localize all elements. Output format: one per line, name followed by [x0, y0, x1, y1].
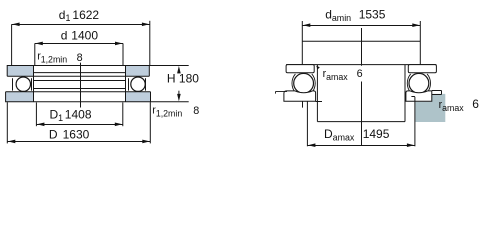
svg-text:ramax: ramax	[323, 68, 349, 82]
D1 extension right	[122, 102, 124, 126]
svg-text:8: 8	[77, 52, 83, 64]
svg-text:d: d	[61, 28, 68, 42]
shaft left edge + damin extension	[301, 21, 303, 65]
housing seat wall right	[404, 65, 406, 122]
top washer outline	[7, 66, 149, 77]
shaft right edge + damin extension	[419, 21, 421, 65]
svg-text:6: 6	[472, 97, 479, 111]
bottom washer outline	[6, 92, 151, 102]
cage pocket line right inner	[128, 78, 130, 90]
housing outer wall left + Damax extension	[306, 101, 308, 146]
D extension left	[6, 102, 8, 143]
dimension d1 1622	[12, 24, 150, 26]
svg-text:r1,2min: r1,2min	[37, 50, 67, 64]
dimension H 180 extension bottom	[151, 101, 189, 103]
H arrow down	[177, 94, 181, 102]
ball right (mounting view)	[409, 73, 429, 93]
cage arcs left ball	[292, 74, 295, 93]
centerline of right view	[361, 28, 363, 66]
D1 extension left	[35, 102, 37, 126]
ball left (mounting view)	[294, 73, 314, 93]
dimension D 1630	[7, 141, 150, 143]
washers top face line	[286, 64, 436, 66]
svg-text:d1: d1	[59, 8, 71, 23]
svg-text:D1: D1	[50, 108, 64, 123]
housing bottom	[317, 121, 405, 123]
bottom washer left section	[284, 91, 316, 101]
shaft block top edge	[302, 40, 420, 42]
dimension Damax 1495	[307, 145, 415, 147]
left cut boundary	[33, 66, 35, 102]
dimension d 1400	[35, 43, 123, 45]
svg-text:1630: 1630	[63, 128, 90, 142]
svg-text:damin: damin	[325, 8, 351, 23]
centerline (bearing axis)	[80, 63, 82, 108]
cage bottom rail	[34, 88, 126, 90]
shaft datum tick below washer	[302, 101, 304, 107]
bottom washer (housing washer) blue cut sections	[6, 92, 34, 102]
dimension D1 1408	[36, 124, 122, 126]
teal fillet block ramax (housing corner)	[415, 94, 445, 122]
svg-text:1622: 1622	[72, 8, 99, 22]
H arrow up	[177, 66, 181, 74]
housing seat wall left	[316, 65, 318, 122]
bottom washer top face line	[6, 91, 151, 93]
svg-text:H 180: H 180	[167, 72, 199, 86]
d extension line right	[122, 43, 124, 65]
cage pocket line left	[12, 78, 14, 90]
ball right	[131, 77, 145, 91]
top washer right section	[408, 65, 436, 73]
housing shoulder tick left	[275, 92, 277, 94]
d1 extension line left	[11, 24, 13, 65]
cage top rail	[34, 80, 126, 82]
cage pocket line left inner	[31, 78, 33, 90]
d1 extension line right	[149, 21, 151, 66]
D extension right	[149, 102, 151, 143]
svg-text:6: 6	[357, 68, 363, 80]
right cut boundary	[125, 66, 127, 102]
cage arcs right ball	[407, 74, 410, 93]
dimension damin 1535	[302, 25, 420, 27]
dimension H 180 extension top	[149, 65, 188, 67]
ball left	[16, 77, 30, 91]
washer groove relief (white) around right ball	[130, 76, 146, 92]
svg-text:1535: 1535	[359, 8, 386, 22]
ramax leader arrow (shaft fillet)	[316, 66, 320, 70]
bottom washer right section	[406, 91, 432, 101]
svg-text:1495: 1495	[363, 127, 390, 141]
washer groove relief (white) around left ball	[15, 76, 31, 92]
top washer raceway shoulder line	[33, 72, 126, 74]
svg-text:Damax: Damax	[324, 127, 355, 142]
housing top tick right	[411, 96, 415, 98]
svg-text:r1,2min: r1,2min	[152, 105, 182, 119]
top washer bottom face line	[7, 75, 149, 77]
top washer left section	[286, 65, 314, 73]
svg-text:D: D	[49, 128, 58, 142]
housing shoulder line left	[276, 91, 288, 93]
housing shoulder step right	[432, 90, 442, 92]
svg-text:1408: 1408	[65, 108, 92, 122]
cage pocket line right	[145, 78, 147, 90]
d extension line left	[34, 43, 36, 65]
housing face segment left	[316, 101, 322, 103]
housing outer wall right + Damax extension	[414, 97, 416, 147]
teal block top edge	[432, 94, 442, 96]
top washer (shaft washer) blue cut sections	[7, 66, 33, 77]
svg-text:1400: 1400	[71, 28, 98, 42]
svg-text:8: 8	[193, 105, 199, 117]
